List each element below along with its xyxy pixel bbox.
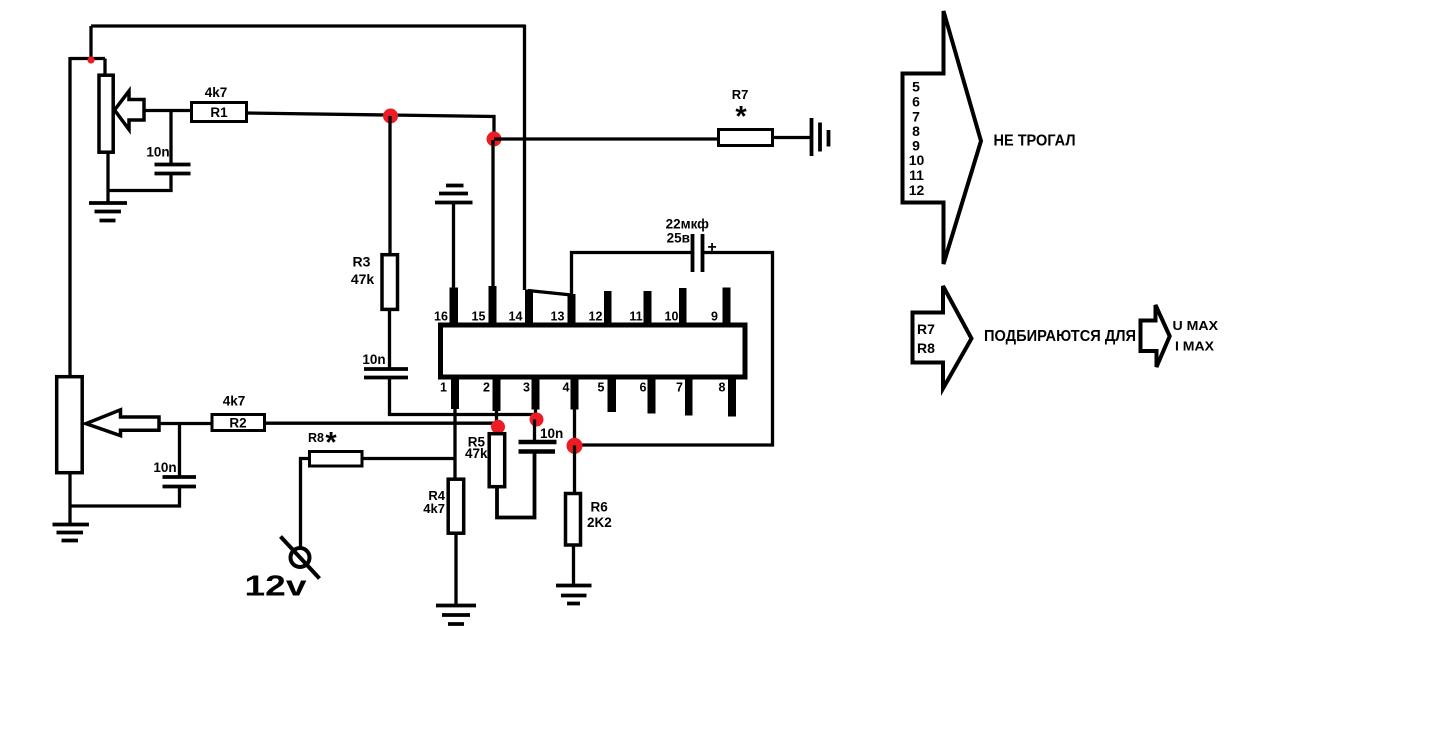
svg-text:4k7: 4k7 — [223, 394, 246, 409]
svg-text:2K2: 2K2 — [587, 515, 612, 530]
IC pin bars bottom — [451, 375, 459, 409]
wire left rail — [68, 57, 71, 376]
svg-text:R7: R7 — [917, 321, 935, 337]
resistor R8 — [310, 452, 363, 467]
node B — [383, 109, 398, 124]
svg-text:12v: 12v — [245, 571, 307, 603]
svg-text:4: 4 — [563, 381, 570, 395]
svg-text:2: 2 — [483, 381, 490, 395]
svg-text:7: 7 — [676, 381, 683, 395]
wire R5 bottom U-loop — [497, 452, 535, 518]
node A — [87, 56, 94, 63]
svg-text:11: 11 — [909, 167, 924, 183]
capacitor C5 22uF plates — [693, 234, 703, 272]
svg-text:10n: 10n — [362, 352, 385, 367]
potentiometer RP1 body — [99, 75, 113, 152]
resistor R2 4k7 — [212, 415, 265, 431]
annotation arrow big (do not touch) — [903, 11, 982, 264]
svg-text:8: 8 — [719, 381, 726, 395]
wire wiper2 to R2 — [159, 422, 212, 425]
svg-text:4k7: 4k7 — [423, 501, 445, 516]
wire C5 right loop to pin 4 — [575, 253, 773, 446]
wire node A horizontal — [70, 57, 105, 60]
capacitor C1 10n plates — [155, 165, 191, 174]
resistor R4 4k7 — [448, 479, 464, 533]
svg-text:R3: R3 — [353, 254, 371, 270]
wire node C to R7 — [494, 137, 719, 140]
wire RP1 bottom — [106, 152, 109, 203]
svg-text:R6: R6 — [591, 500, 609, 515]
wire node B down to R3 — [388, 116, 391, 255]
svg-text:16: 16 — [434, 310, 448, 324]
svg-text:10: 10 — [909, 152, 925, 168]
wire bend into potentiometer RP1 — [103, 59, 106, 76]
annotation small arrow — [1141, 305, 1170, 367]
potentiometer RP2 body — [57, 377, 82, 473]
svg-text:9: 9 — [912, 137, 920, 153]
svg-text:R2: R2 — [229, 416, 246, 431]
svg-text:13: 13 — [551, 310, 565, 324]
resistor R5 47k — [489, 434, 505, 487]
wire pin 2 stem — [495, 409, 498, 427]
wire pin 3 stem — [534, 408, 537, 420]
wire left drop to node A — [89, 26, 92, 59]
svg-text:R7: R7 — [732, 87, 749, 102]
wire top rail — [91, 24, 525, 27]
wire R2 to node D — [265, 422, 497, 425]
svg-text:47k: 47k — [351, 271, 375, 287]
svg-text:6: 6 — [912, 93, 920, 109]
wire diagonal pin14 to pin13 — [528, 291, 572, 296]
wire node C down to pin 15 — [491, 140, 494, 288]
svg-text:R1: R1 — [210, 105, 228, 120]
annotation arrow R7 R8 — [913, 286, 972, 389]
wire branch to C1 — [169, 111, 172, 164]
wire node E to C3 — [533, 420, 536, 443]
lamp 12v circle — [291, 548, 310, 567]
svg-text:R8: R8 — [308, 431, 324, 445]
capacitor C4 10n plates — [163, 477, 197, 487]
wire C2 to pin 3 node E — [390, 378, 537, 415]
wire vertical to pin 14 — [523, 25, 526, 291]
ground GND1 — [89, 203, 127, 221]
svg-text:4k7: 4k7 — [205, 85, 228, 100]
svg-text:ПОДБИРАЮТСЯ ДЛЯ: ПОДБИРАЮТСЯ ДЛЯ — [984, 328, 1136, 345]
node F — [567, 438, 583, 454]
wire pin 1 stem — [453, 407, 456, 479]
potentiometer RP1 wiper arrow — [115, 91, 145, 130]
IC pin bars top — [450, 288, 459, 328]
svg-text:10n: 10n — [540, 426, 563, 441]
svg-text:12: 12 — [909, 182, 925, 198]
wire R1 to node C — [247, 113, 495, 139]
wire node F to R6 — [573, 446, 576, 494]
svg-text:НЕ ТРОГАЛ: НЕ ТРОГАЛ — [994, 133, 1076, 150]
node C — [487, 132, 502, 147]
svg-text:1: 1 — [440, 381, 447, 395]
wire R8 left to lamp — [301, 459, 310, 549]
ground GND2 inverted above pin16 — [435, 186, 473, 203]
svg-text:U MAX: U MAX — [1173, 318, 1219, 333]
ground GND3 — [53, 525, 90, 541]
wire GND2 to pin 16 — [452, 204, 455, 291]
svg-text:12: 12 — [589, 310, 603, 324]
svg-text:7: 7 — [912, 108, 920, 124]
wire R4 to ground — [454, 533, 457, 605]
svg-text:14: 14 — [509, 310, 523, 324]
wire wiper to R1 — [144, 109, 192, 112]
svg-text:22мкф: 22мкф — [666, 217, 710, 232]
wire RP2 bottom — [68, 473, 71, 525]
wire C5 left to pin 13 — [572, 253, 692, 297]
IC U1 body — [441, 325, 746, 377]
ground GND5 — [556, 586, 592, 604]
resistor R6 2K2 — [566, 494, 581, 546]
svg-text:11: 11 — [629, 310, 642, 324]
svg-text:10: 10 — [665, 310, 679, 324]
wire R8 right to pin1 stem — [362, 457, 457, 460]
svg-text:9: 9 — [711, 310, 718, 324]
svg-text:47k: 47k — [465, 446, 488, 461]
capacitor C3 10n plates — [519, 442, 557, 452]
wire pin 4 stem — [573, 408, 576, 446]
svg-text:I MAX: I MAX — [1175, 339, 1214, 354]
capacitor C2 10n plates — [364, 369, 408, 378]
resistor R3 47k — [382, 255, 398, 310]
wire branch to C4 — [178, 424, 181, 478]
svg-text:25в: 25в — [667, 231, 690, 246]
svg-text:10n: 10n — [146, 145, 169, 160]
ground GND6 sideways — [812, 118, 829, 156]
wire R3 to C2 — [388, 309, 391, 369]
resistor R1 4k7 — [192, 103, 247, 122]
svg-text:5: 5 — [912, 79, 920, 95]
svg-text:6: 6 — [640, 381, 647, 395]
svg-text:3: 3 — [523, 381, 530, 395]
potentiometer RP2 wiper arrow — [86, 410, 159, 436]
resistor R7 — [719, 130, 773, 146]
node D — [491, 420, 505, 434]
svg-text:10n: 10n — [153, 460, 176, 475]
wire C4 to RP2 bottom — [70, 487, 180, 506]
lamp diagonal stroke — [281, 537, 320, 579]
svg-text:5: 5 — [598, 381, 605, 395]
node E — [530, 413, 544, 427]
ground GND4 — [436, 606, 476, 625]
svg-text:R8: R8 — [917, 340, 935, 356]
wire R6 to ground — [572, 545, 575, 585]
wire R7 to ground — [773, 136, 812, 139]
svg-text:15: 15 — [472, 310, 486, 324]
wire C1 to ground — [108, 175, 171, 191]
